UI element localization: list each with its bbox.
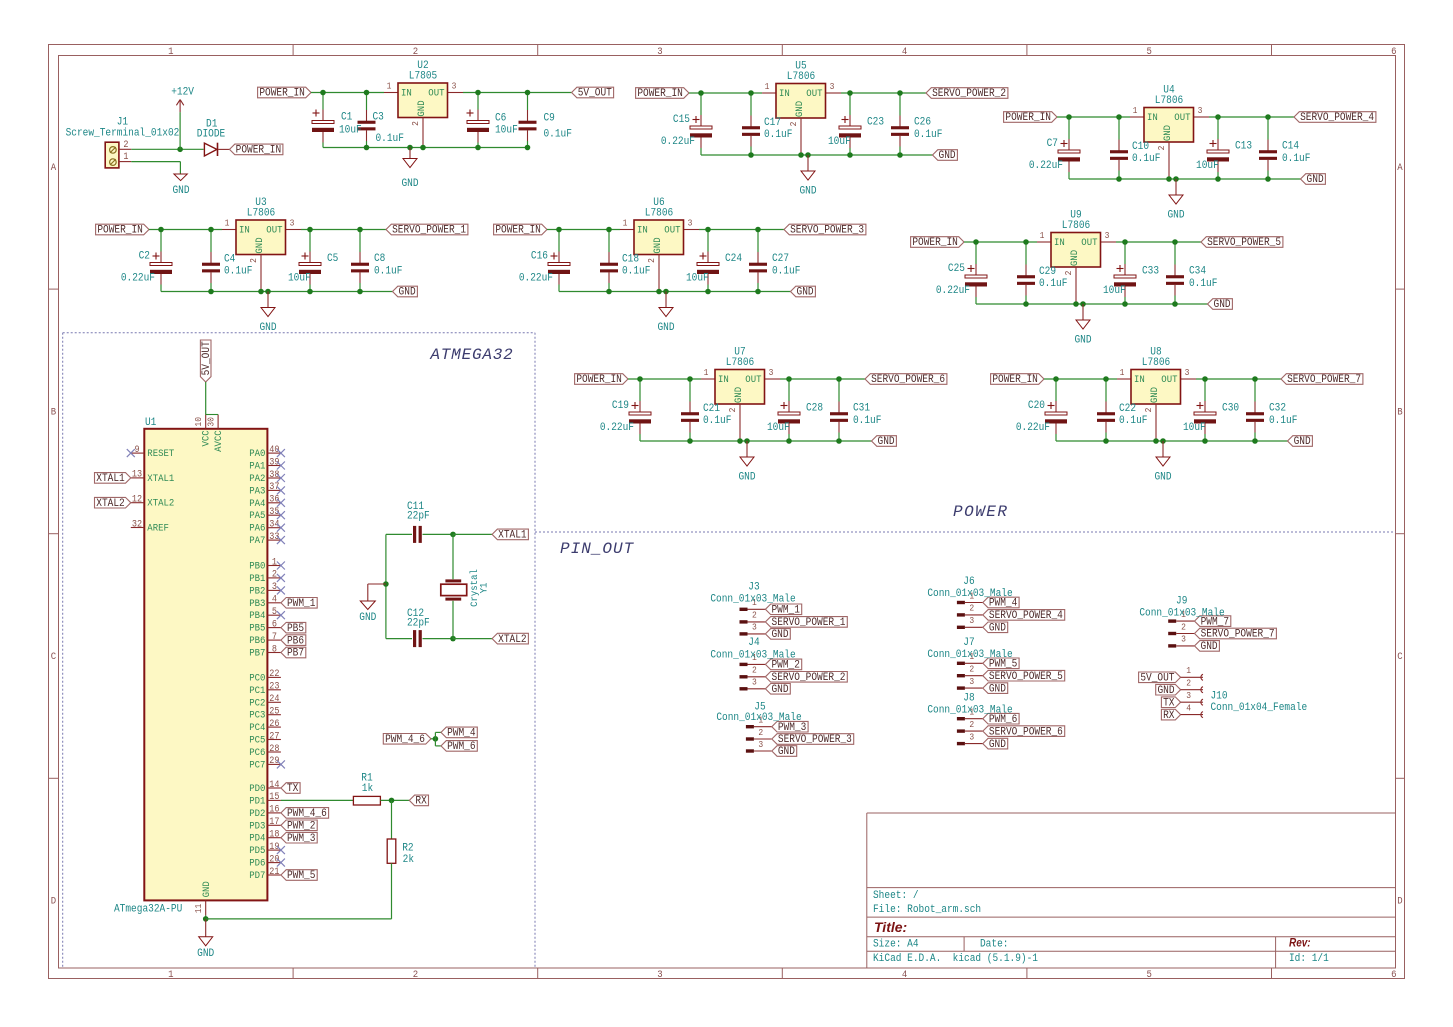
svg-text:3: 3 — [830, 82, 835, 93]
svg-text:SERVO_POWER_3: SERVO_POWER_3 — [790, 224, 864, 237]
svg-text:SERVO_POWER_7: SERVO_POWER_7 — [1201, 628, 1275, 641]
svg-text:GND: GND — [989, 683, 1006, 696]
svg-text:PC4: PC4 — [249, 722, 265, 734]
svg-text:GND: GND — [1068, 250, 1080, 266]
svg-text:GND: GND — [738, 471, 755, 484]
svg-text:C7: C7 — [1047, 137, 1058, 150]
svg-text:2: 2 — [249, 258, 260, 263]
svg-text:GND: GND — [989, 738, 1006, 751]
svg-text:J7: J7 — [963, 636, 974, 649]
svg-text:0.1uF: 0.1uF — [853, 414, 881, 427]
svg-text:0.1uF: 0.1uF — [772, 265, 800, 278]
svg-text:GND: GND — [1307, 174, 1324, 187]
svg-text:OUT: OUT — [1161, 373, 1177, 385]
svg-text:J3: J3 — [748, 581, 759, 594]
svg-text:29: 29 — [269, 755, 279, 767]
svg-text:23: 23 — [269, 680, 279, 692]
svg-text:1: 1 — [1040, 231, 1045, 242]
svg-text:GND: GND — [797, 286, 814, 299]
svg-text:0.1uF: 0.1uF — [1119, 414, 1147, 427]
svg-text:POWER_IN: POWER_IN — [495, 224, 541, 237]
svg-text:Title:: Title: — [874, 919, 907, 935]
svg-text:GND: GND — [359, 611, 376, 624]
svg-text:9: 9 — [134, 443, 139, 455]
svg-text:2: 2 — [1157, 146, 1168, 151]
svg-text:PC2: PC2 — [249, 697, 265, 709]
svg-text:Conn_01x03_Male: Conn_01x03_Male — [710, 593, 795, 606]
svg-text:POWER_IN: POWER_IN — [992, 374, 1038, 387]
svg-text:GND: GND — [793, 101, 805, 117]
svg-text:18: 18 — [269, 828, 279, 840]
svg-text:D: D — [1397, 895, 1403, 907]
svg-text:4: 4 — [902, 968, 908, 980]
svg-text:PA3: PA3 — [249, 485, 265, 497]
svg-text:C8: C8 — [374, 252, 385, 265]
svg-text:PB0: PB0 — [249, 560, 265, 572]
svg-text:C24: C24 — [725, 252, 742, 265]
svg-text:2: 2 — [969, 719, 974, 730]
svg-text:2: 2 — [728, 408, 739, 413]
svg-text:C10: C10 — [1132, 140, 1149, 153]
svg-text:A: A — [51, 161, 57, 173]
svg-text:GND: GND — [878, 436, 895, 449]
svg-text:Conn_01x03_Male: Conn_01x03_Male — [927, 648, 1012, 661]
svg-text:PB5: PB5 — [287, 622, 304, 635]
svg-text:Date:: Date: — [980, 938, 1008, 951]
svg-text:3: 3 — [752, 677, 757, 688]
svg-text:10uF: 10uF — [495, 124, 518, 137]
svg-text:5V_OUT: 5V_OUT — [1140, 672, 1174, 685]
svg-text:21: 21 — [269, 865, 280, 877]
svg-text:6: 6 — [1391, 45, 1397, 57]
svg-text:PC5: PC5 — [249, 734, 265, 746]
svg-text:C6: C6 — [495, 112, 506, 125]
svg-text:GND: GND — [1148, 387, 1160, 403]
svg-text:28: 28 — [269, 742, 279, 754]
svg-text:32: 32 — [132, 518, 142, 530]
svg-text:C14: C14 — [1282, 140, 1299, 153]
svg-text:B: B — [51, 406, 57, 418]
svg-text:19: 19 — [269, 840, 279, 852]
svg-text:PWM_4_6: PWM_4_6 — [287, 808, 327, 821]
svg-text:0.22uF: 0.22uF — [519, 272, 553, 285]
svg-text:PB3: PB3 — [249, 597, 265, 609]
svg-text:2: 2 — [123, 138, 128, 150]
svg-text:Id: 1/1: Id: 1/1 — [1289, 952, 1329, 965]
svg-text:6: 6 — [272, 618, 277, 630]
svg-text:1: 1 — [123, 151, 129, 163]
svg-text:C28: C28 — [806, 402, 823, 415]
svg-text:20: 20 — [269, 853, 279, 865]
svg-text:0.1uF: 0.1uF — [1039, 277, 1067, 290]
svg-text:C1: C1 — [341, 111, 352, 124]
svg-text:2: 2 — [1186, 678, 1191, 689]
svg-text:POWER_IN: POWER_IN — [576, 374, 622, 387]
svg-text:XTAL1: XTAL1 — [498, 529, 526, 542]
svg-text:2: 2 — [1144, 408, 1155, 413]
svg-text:GND: GND — [1294, 436, 1311, 449]
svg-text:3: 3 — [290, 218, 295, 229]
svg-text:3: 3 — [969, 732, 974, 743]
svg-text:16: 16 — [269, 803, 279, 815]
svg-text:25: 25 — [269, 705, 279, 717]
svg-text:XTAL1: XTAL1 — [147, 472, 174, 484]
svg-text:C19: C19 — [612, 399, 629, 412]
svg-text:1: 1 — [1120, 368, 1125, 379]
svg-text:Sheet: /: Sheet: / — [873, 889, 919, 902]
svg-text:GND: GND — [253, 237, 265, 253]
svg-text:SERVO_POWER_2: SERVO_POWER_2 — [932, 88, 1006, 101]
svg-text:C17: C17 — [764, 116, 781, 129]
svg-text:RX: RX — [415, 795, 426, 808]
svg-text:PB7: PB7 — [287, 647, 304, 660]
svg-text:PB4: PB4 — [249, 610, 265, 622]
svg-text:3: 3 — [657, 45, 663, 57]
svg-text:ATMEGA32: ATMEGA32 — [429, 346, 513, 364]
svg-text:PD6: PD6 — [249, 857, 265, 869]
svg-text:1: 1 — [272, 556, 278, 568]
svg-text:3: 3 — [969, 616, 974, 627]
svg-text:Conn_01x03_Male: Conn_01x03_Male — [927, 587, 1012, 600]
svg-text:GND: GND — [197, 947, 214, 960]
svg-text:XTAL2: XTAL2 — [147, 497, 174, 509]
svg-text:OUT: OUT — [266, 224, 282, 236]
svg-text:POWER_IN: POWER_IN — [97, 224, 143, 237]
svg-text:26: 26 — [269, 717, 279, 729]
svg-text:PWM_2: PWM_2 — [287, 820, 315, 833]
svg-text:PD3: PD3 — [249, 820, 265, 832]
svg-text:PA7: PA7 — [249, 535, 265, 547]
svg-text:PD1: PD1 — [249, 795, 265, 807]
svg-text:PD2: PD2 — [249, 807, 265, 819]
svg-text:2: 2 — [413, 968, 419, 980]
svg-text:2: 2 — [752, 665, 757, 676]
svg-text:C34: C34 — [1189, 265, 1206, 278]
svg-text:AVCC: AVCC — [213, 430, 225, 452]
svg-text:Size: A4: Size: A4 — [873, 938, 919, 951]
svg-text:0.1uF: 0.1uF — [544, 128, 572, 141]
svg-text:POWER_IN: POWER_IN — [637, 88, 683, 101]
svg-text:SERVO_POWER_1: SERVO_POWER_1 — [392, 224, 466, 237]
svg-text:GND: GND — [651, 237, 663, 253]
svg-text:10uF: 10uF — [1196, 159, 1219, 172]
svg-text:A: A — [1397, 161, 1403, 173]
svg-text:SERVO_POWER_4: SERVO_POWER_4 — [989, 610, 1063, 623]
svg-text:J9: J9 — [1176, 595, 1187, 608]
svg-text:3: 3 — [1198, 106, 1203, 117]
svg-text:OUT: OUT — [428, 87, 444, 99]
svg-text:C5: C5 — [327, 252, 338, 265]
svg-text:2: 2 — [413, 45, 419, 57]
svg-text:0.1uF: 0.1uF — [914, 128, 942, 141]
svg-text:Conn_01x04_Female: Conn_01x04_Female — [1211, 701, 1308, 714]
svg-text:14: 14 — [269, 778, 280, 790]
svg-text:10: 10 — [194, 417, 205, 427]
svg-text:RX: RX — [1163, 709, 1174, 722]
svg-text:PD4: PD4 — [249, 832, 265, 844]
svg-text:3: 3 — [752, 622, 757, 633]
svg-text:IN: IN — [401, 87, 412, 99]
svg-text:PWM_4_6: PWM_4_6 — [385, 733, 425, 746]
svg-text:10uF: 10uF — [686, 272, 709, 285]
svg-text:GND: GND — [1201, 641, 1218, 654]
svg-text:GND: GND — [1167, 209, 1184, 222]
svg-text:PIN_OUT: PIN_OUT — [560, 540, 635, 558]
svg-text:L7805: L7805 — [409, 70, 437, 83]
svg-text:4: 4 — [902, 45, 908, 57]
svg-text:File: Robot_arm.sch: File: Robot_arm.sch — [873, 903, 981, 916]
svg-text:IN: IN — [779, 87, 790, 99]
svg-text:GND: GND — [259, 321, 276, 334]
svg-text:GND: GND — [1074, 334, 1091, 347]
svg-text:VCC: VCC — [200, 430, 212, 446]
svg-text:Conn_01x03_Male: Conn_01x03_Male — [927, 704, 1012, 717]
svg-text:1k: 1k — [362, 782, 373, 795]
svg-text:12: 12 — [132, 493, 142, 505]
svg-text:GND: GND — [401, 177, 418, 190]
svg-text:C25: C25 — [948, 262, 965, 275]
svg-text:C2: C2 — [139, 250, 150, 263]
svg-text:POWER_IN: POWER_IN — [912, 237, 958, 250]
svg-text:1: 1 — [765, 82, 770, 93]
svg-text:2: 2 — [758, 727, 763, 738]
svg-text:PA6: PA6 — [249, 522, 265, 534]
svg-text:7: 7 — [272, 630, 277, 642]
svg-text:IN: IN — [1054, 236, 1065, 248]
svg-text:TX: TX — [1163, 697, 1174, 710]
svg-text:J4: J4 — [748, 636, 759, 649]
svg-text:PD5: PD5 — [249, 845, 265, 857]
svg-text:0.22uF: 0.22uF — [661, 135, 695, 148]
svg-text:35: 35 — [269, 505, 279, 517]
svg-text:PA0: PA0 — [249, 448, 265, 460]
svg-text:PA4: PA4 — [249, 497, 265, 509]
svg-text:SERVO_POWER_6: SERVO_POWER_6 — [871, 374, 945, 387]
svg-text:PC7: PC7 — [249, 759, 265, 771]
svg-text:ATmega32A-PU: ATmega32A-PU — [114, 903, 182, 916]
svg-text:B: B — [1397, 406, 1403, 418]
svg-text:0.1uF: 0.1uF — [703, 414, 731, 427]
svg-text:3: 3 — [1181, 634, 1186, 645]
svg-text:C3: C3 — [373, 111, 384, 124]
svg-text:SERVO_POWER_1: SERVO_POWER_1 — [772, 617, 846, 630]
svg-text:13: 13 — [132, 468, 142, 480]
svg-text:0.22uF: 0.22uF — [600, 421, 634, 434]
svg-text:10uF: 10uF — [288, 272, 311, 285]
svg-text:5: 5 — [1147, 45, 1153, 57]
svg-text:PWM_1: PWM_1 — [287, 597, 315, 610]
svg-text:3: 3 — [452, 81, 457, 92]
svg-text:10uF: 10uF — [1183, 421, 1206, 434]
svg-text:GND: GND — [771, 629, 788, 642]
svg-text:SERVO_POWER_7: SERVO_POWER_7 — [1287, 374, 1361, 387]
svg-text:2: 2 — [969, 603, 974, 614]
svg-text:PA2: PA2 — [249, 472, 265, 484]
svg-text:GND: GND — [399, 286, 416, 299]
svg-text:Y1: Y1 — [478, 582, 490, 593]
svg-text:PWM_1: PWM_1 — [771, 604, 799, 617]
svg-text:0.22uF: 0.22uF — [1016, 421, 1050, 434]
svg-text:22: 22 — [269, 668, 279, 680]
svg-text:C32: C32 — [1269, 402, 1286, 415]
svg-text:PWM_3: PWM_3 — [287, 832, 315, 845]
svg-text:0.22uF: 0.22uF — [936, 284, 970, 297]
svg-text:PWM_6: PWM_6 — [447, 741, 475, 754]
svg-text:GND: GND — [415, 100, 427, 116]
svg-text:6: 6 — [1391, 968, 1397, 980]
svg-text:10uF: 10uF — [339, 124, 362, 137]
svg-text:1: 1 — [1133, 106, 1138, 117]
svg-text:3: 3 — [1105, 231, 1110, 242]
svg-text:C13: C13 — [1235, 140, 1252, 153]
svg-text:SERVO_POWER_3: SERVO_POWER_3 — [778, 734, 852, 747]
svg-text:3: 3 — [657, 968, 663, 980]
svg-text:GND: GND — [1214, 299, 1231, 312]
svg-text:C16: C16 — [531, 250, 548, 263]
svg-text:GND: GND — [989, 622, 1006, 635]
svg-text:KiCad E.D.A. kicad (5.1.9)-1: KiCad E.D.A. kicad (5.1.9)-1 — [873, 952, 1038, 965]
svg-text:0.1uF: 0.1uF — [1132, 152, 1160, 165]
svg-text:2: 2 — [411, 121, 422, 126]
svg-text:2: 2 — [647, 258, 658, 263]
svg-text:PC1: PC1 — [249, 684, 265, 696]
svg-text:3: 3 — [1186, 691, 1191, 702]
svg-text:PC6: PC6 — [249, 746, 265, 758]
svg-text:C27: C27 — [772, 252, 789, 265]
svg-text:1: 1 — [623, 218, 628, 229]
svg-text:SERVO_POWER_5: SERVO_POWER_5 — [989, 670, 1063, 683]
svg-text:1: 1 — [704, 368, 709, 379]
svg-text:OUT: OUT — [806, 87, 822, 99]
svg-text:10uF: 10uF — [828, 135, 851, 148]
svg-text:0.1uF: 0.1uF — [224, 265, 252, 278]
svg-text:PB7: PB7 — [249, 647, 265, 659]
svg-text:PD0: PD0 — [249, 782, 265, 794]
svg-text:D: D — [51, 895, 57, 907]
svg-text:GND: GND — [1154, 471, 1171, 484]
svg-text:L7806: L7806 — [1155, 94, 1183, 107]
svg-text:IN: IN — [637, 224, 648, 236]
svg-text:2: 2 — [272, 568, 277, 580]
svg-text:27: 27 — [269, 730, 279, 742]
svg-text:PC3: PC3 — [249, 709, 265, 721]
svg-text:2k: 2k — [403, 853, 414, 866]
svg-text:Rev:: Rev: — [1289, 937, 1311, 950]
svg-text:Conn_01x03_Male: Conn_01x03_Male — [716, 711, 801, 724]
svg-text:L7806: L7806 — [787, 70, 815, 83]
svg-text:IN: IN — [718, 373, 729, 385]
svg-text:GND: GND — [732, 387, 744, 403]
svg-text:15: 15 — [269, 791, 279, 803]
svg-text:C15: C15 — [673, 113, 690, 126]
svg-text:C26: C26 — [914, 116, 931, 129]
svg-text:0.1uF: 0.1uF — [1189, 277, 1217, 290]
svg-text:4: 4 — [1186, 703, 1191, 714]
svg-text:5V_OUT: 5V_OUT — [200, 341, 213, 375]
svg-text:38: 38 — [269, 468, 279, 480]
svg-text:C31: C31 — [853, 402, 870, 415]
svg-text:39: 39 — [269, 456, 279, 468]
svg-text:C30: C30 — [1222, 402, 1239, 415]
svg-text:PB6: PB6 — [249, 635, 265, 647]
svg-text:36: 36 — [269, 493, 279, 505]
svg-text:3: 3 — [1185, 368, 1190, 379]
svg-text:OUT: OUT — [745, 373, 761, 385]
svg-text:PB1: PB1 — [249, 572, 265, 584]
svg-text:33: 33 — [269, 530, 279, 542]
svg-text:2: 2 — [1181, 622, 1186, 633]
svg-text:DIODE: DIODE — [197, 128, 225, 141]
svg-text:SERVO_POWER_6: SERVO_POWER_6 — [989, 726, 1063, 739]
svg-text:RESET: RESET — [147, 448, 174, 460]
svg-text:1: 1 — [225, 218, 230, 229]
svg-text:2: 2 — [969, 664, 974, 675]
svg-text:17: 17 — [269, 816, 279, 828]
svg-text:11: 11 — [194, 904, 205, 914]
svg-text:PC0: PC0 — [249, 672, 265, 684]
svg-text:1: 1 — [387, 81, 392, 92]
svg-text:POWER_IN: POWER_IN — [259, 87, 305, 100]
svg-text:POWER_IN: POWER_IN — [1005, 112, 1051, 125]
svg-text:GND: GND — [201, 881, 213, 897]
svg-text:XTAL1: XTAL1 — [96, 473, 124, 486]
svg-text:PA1: PA1 — [249, 460, 265, 472]
svg-text:XTAL2: XTAL2 — [96, 497, 124, 510]
svg-text:C21: C21 — [703, 402, 720, 415]
svg-text:GND: GND — [778, 746, 795, 759]
svg-text:+12V: +12V — [171, 86, 195, 99]
svg-text:30: 30 — [206, 417, 217, 427]
svg-text:0.22uF: 0.22uF — [121, 272, 155, 285]
svg-text:GND: GND — [771, 683, 788, 696]
svg-text:0.1uF: 0.1uF — [622, 265, 650, 278]
svg-text:PWM_4: PWM_4 — [447, 727, 475, 740]
svg-text:4: 4 — [272, 593, 278, 605]
svg-text:2: 2 — [789, 122, 800, 127]
svg-text:L7806: L7806 — [1142, 356, 1170, 369]
svg-text:C9: C9 — [544, 112, 555, 125]
svg-text:OUT: OUT — [1174, 111, 1190, 123]
svg-text:GND: GND — [1161, 125, 1173, 141]
svg-text:0.22uF: 0.22uF — [1029, 159, 1063, 172]
svg-text:SERVO_POWER_5: SERVO_POWER_5 — [1207, 237, 1281, 250]
svg-text:POWER: POWER — [953, 503, 1009, 521]
svg-text:3: 3 — [769, 368, 774, 379]
svg-text:POWER_IN: POWER_IN — [236, 144, 282, 157]
svg-text:1: 1 — [1186, 666, 1191, 677]
svg-text:Conn_01x03_Male: Conn_01x03_Male — [1139, 607, 1224, 620]
svg-text:OUT: OUT — [1081, 236, 1097, 248]
svg-text:L7806: L7806 — [247, 207, 275, 220]
svg-text:5: 5 — [1147, 968, 1153, 980]
svg-text:10uF: 10uF — [767, 421, 790, 434]
svg-text:0.1uF: 0.1uF — [374, 265, 402, 278]
svg-text:37: 37 — [269, 481, 279, 493]
svg-text:PB6: PB6 — [287, 635, 304, 648]
svg-text:2: 2 — [752, 610, 757, 621]
svg-text:C22: C22 — [1119, 402, 1136, 415]
svg-text:PWM_5: PWM_5 — [287, 870, 315, 883]
svg-text:24: 24 — [269, 693, 280, 705]
svg-text:0.1uF: 0.1uF — [1282, 152, 1310, 165]
svg-text:2: 2 — [1064, 271, 1075, 276]
svg-text:GND: GND — [799, 185, 816, 198]
svg-text:3: 3 — [688, 218, 693, 229]
svg-text:GND: GND — [1157, 684, 1174, 697]
svg-text:IN: IN — [239, 224, 250, 236]
svg-text:GND: GND — [657, 321, 674, 334]
svg-text:C33: C33 — [1142, 265, 1159, 278]
